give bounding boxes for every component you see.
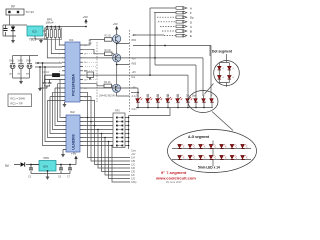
capacitor C2 xyxy=(45,31,49,39)
junction dots buses xyxy=(137,45,166,94)
dot LED 3 xyxy=(218,76,221,80)
svg-text:SW3: SW3 xyxy=(26,60,32,63)
segment output row F xyxy=(154,11,192,15)
svg-text:a: a xyxy=(225,158,226,160)
svg-text:Dot: Dot xyxy=(192,95,196,98)
svg-text:s4: s4 xyxy=(232,77,234,79)
IC1 right pin dashed leaders xyxy=(85,54,96,84)
pointer line dot xyxy=(205,84,214,95)
svg-text:ULN2803: ULN2803 xyxy=(72,134,76,149)
svg-text:Dot: Dot xyxy=(132,76,136,79)
svg-text:09 June 2007: 09 June 2007 xyxy=(166,180,182,184)
svg-text:Dp: Dp xyxy=(190,16,194,20)
junction dots input wires xyxy=(42,62,46,68)
svg-text:a: a xyxy=(225,147,226,149)
junction dots transistors xyxy=(116,43,118,66)
ground under C2 xyxy=(35,36,47,43)
svg-text:a: a xyxy=(194,158,195,160)
svg-text:9V: 9V xyxy=(5,164,10,168)
switch SW1 xyxy=(9,60,15,76)
svg-text:C5: C5 xyxy=(28,176,32,179)
segment output row C xyxy=(160,25,192,29)
cap labels xyxy=(28,176,71,179)
wire dot feed xyxy=(155,65,196,96)
dot LED 1 xyxy=(218,66,221,70)
A-G LED emission ticks xyxy=(182,144,184,147)
svg-text:RB5: RB5 xyxy=(132,63,137,66)
svg-text:s3: s3 xyxy=(222,77,224,79)
resistor pack RP2 xyxy=(113,113,125,148)
resistor pack outputs xyxy=(125,118,129,146)
svg-text:R4 1K: R4 1K xyxy=(104,81,111,84)
switch SW3 xyxy=(26,60,32,76)
IC1 left pins xyxy=(62,45,65,100)
transistor Q1 xyxy=(113,35,121,43)
segment output row E xyxy=(164,34,192,38)
svg-text:F: F xyxy=(190,11,192,15)
svg-text:IC2: IC2 xyxy=(70,110,75,114)
svg-text:16: 16 xyxy=(84,62,87,64)
svg-text:a: a xyxy=(215,158,216,160)
svg-text:D3: D3 xyxy=(156,95,160,98)
svg-text:IC1: IC1 xyxy=(69,38,74,42)
capacitor C6 xyxy=(59,165,63,174)
ground right of switches xyxy=(38,67,42,91)
ground under IC4 xyxy=(46,171,50,180)
svg-text:a: a xyxy=(204,147,205,149)
dot LED 2 xyxy=(228,66,231,70)
switch bottom rail xyxy=(13,69,30,79)
capacitor C7 xyxy=(68,165,72,174)
svg-text:7809: 7809 xyxy=(43,156,49,160)
ground under crystal xyxy=(40,86,47,88)
resistor R4 xyxy=(104,81,112,88)
transistor Q2 xyxy=(113,54,121,62)
svg-text:A-G segment: A-G segment xyxy=(188,135,210,139)
svg-text:s2: s2 xyxy=(232,68,234,70)
svg-text:B: B xyxy=(190,30,192,34)
svg-text:C7: C7 xyxy=(67,176,71,179)
transistor interconnect wires xyxy=(116,43,118,84)
A-G row1 LEDs xyxy=(178,145,245,149)
staircase junction dots xyxy=(87,117,113,147)
svg-text:IC3: IC3 xyxy=(32,30,37,34)
svg-text:s1: s1 xyxy=(222,68,224,70)
ground under IC1 xyxy=(63,102,67,107)
svg-text:D4: D4 xyxy=(166,95,170,98)
svg-text:+5V: +5V xyxy=(132,34,137,37)
svg-text:up: up xyxy=(9,73,12,76)
pointer line A-G xyxy=(212,112,233,131)
wire left rail xyxy=(3,25,27,36)
svg-text:Com: Com xyxy=(132,108,137,111)
resistor R2 xyxy=(105,35,113,42)
svg-text:SW1: SW1 xyxy=(9,60,15,63)
dot segment ellipse xyxy=(214,61,240,86)
svg-text:+9V: +9V xyxy=(71,152,76,156)
svg-text:a: a xyxy=(236,158,237,160)
wires RP1 to IC1 pins xyxy=(47,38,62,58)
A-G row2 LEDs xyxy=(178,156,245,160)
small ellipse dot group xyxy=(188,91,218,113)
switch rail xyxy=(13,56,38,63)
svg-text:C: C xyxy=(190,25,192,29)
svg-text:SW2: SW2 xyxy=(18,60,24,63)
LED D9 xyxy=(210,95,214,103)
svg-text:D: D xyxy=(190,20,192,24)
svg-text:2N4403 BD140: 2N4403 BD140 xyxy=(99,95,116,98)
svg-text:dn: dn xyxy=(18,73,21,76)
svg-text:a: a xyxy=(183,158,184,160)
IC1 microcontroller body xyxy=(65,42,80,102)
svg-text:9V: 9V xyxy=(11,5,16,9)
junction dots caps xyxy=(30,164,71,172)
svg-text:a: a xyxy=(246,158,247,160)
IC1 pin numbers xyxy=(59,45,87,99)
bus wire seg-A xyxy=(83,88,138,96)
capacitor C5 xyxy=(29,165,39,174)
svg-text:E: E xyxy=(190,34,192,38)
svg-text:D2: D2 xyxy=(146,95,150,98)
svg-text:a: a xyxy=(183,147,184,149)
svg-text:A: A xyxy=(190,7,192,11)
svg-text:RB4: RB4 xyxy=(132,39,137,42)
+5V at Q1 xyxy=(113,22,119,35)
wire 7805 output xyxy=(43,27,86,32)
svg-text:a: a xyxy=(215,147,216,149)
svg-text:17: 17 xyxy=(84,54,87,56)
svg-text:4: 4 xyxy=(59,71,61,73)
note box xyxy=(8,94,32,107)
segment output row A xyxy=(150,7,192,11)
dashed board boundary left xyxy=(96,42,98,102)
A-G row1 connecting wire xyxy=(172,147,251,149)
svg-text:9" 7-segment: 9" 7-segment xyxy=(161,170,187,175)
svg-text:PIC16F628A: PIC16F628A xyxy=(72,74,76,96)
wires IC1 to transistor bases xyxy=(83,40,113,46)
wires IC1 left to IC2 bundle xyxy=(48,79,63,100)
switch SW2 xyxy=(18,60,24,76)
+9V power symbol xyxy=(71,152,78,165)
dot LED 4 xyxy=(228,76,231,80)
svg-text:C3 C4: C3 C4 xyxy=(42,71,49,74)
dashed board boundary xyxy=(129,30,131,112)
junction dots left xyxy=(37,62,41,68)
svg-text:a: a xyxy=(204,158,205,160)
staircase branch verticals xyxy=(83,92,130,157)
wire jack down xyxy=(9,15,11,25)
svg-text:a: a xyxy=(236,147,237,149)
svg-text:C/Dp: C/Dp xyxy=(131,181,137,184)
svg-text:a: a xyxy=(246,147,247,149)
svg-text:a: a xyxy=(194,147,195,149)
svg-text:RC2 = TIP: RC2 = TIP xyxy=(11,102,23,106)
bus wire seg-C xyxy=(83,58,203,96)
svg-text:RP2: RP2 xyxy=(115,110,120,113)
dot segment top stub xyxy=(219,54,229,66)
LED D8 xyxy=(202,95,206,103)
LED D7 dot xyxy=(192,95,198,103)
svg-text:R3 1K: R3 1K xyxy=(105,49,112,52)
svg-text:+9V: +9V xyxy=(132,71,137,74)
ground under switches xyxy=(19,78,23,84)
dot segment internal wires xyxy=(219,70,229,87)
net labels right of boundary xyxy=(132,34,137,111)
junction dots on 5V rail xyxy=(46,26,87,28)
diode D1 xyxy=(11,25,15,36)
LED row D1-D6 xyxy=(136,95,142,103)
regulator IC4 xyxy=(39,161,56,172)
capacitor C1 xyxy=(4,25,8,36)
svg-text:Dot segment: Dot segment xyxy=(212,50,233,54)
wire label to led1 xyxy=(131,92,138,94)
svg-text:+5V: +5V xyxy=(83,15,88,19)
net labels bottom column xyxy=(131,150,137,185)
regulator IC3 7805 xyxy=(27,26,43,36)
dot segment riser xyxy=(209,46,211,57)
resistor pack RP1 xyxy=(45,27,62,40)
LED feed stubs xyxy=(138,96,211,99)
wires switches to IC1 xyxy=(35,63,62,67)
bottom caps rail xyxy=(31,165,76,174)
A-G row2 connecting wire xyxy=(172,141,251,167)
svg-text:C6: C6 xyxy=(58,176,62,179)
led stubs xyxy=(148,94,178,99)
resistor R3 xyxy=(105,49,113,56)
transistor Q3 xyxy=(112,84,120,92)
svg-text:5mm LED x 14: 5mm LED x 14 xyxy=(198,166,220,170)
svg-text:www.coolcircuit.com: www.coolcircuit.com xyxy=(155,176,196,181)
svg-text:10Kx4: 10Kx4 xyxy=(46,21,54,25)
ground under input xyxy=(9,36,16,43)
segment output row Dp xyxy=(157,16,194,20)
svg-text:R2 1K: R2 1K xyxy=(105,35,112,38)
ground under IC2 xyxy=(61,150,65,158)
crystal X1 xyxy=(43,74,63,87)
wire y35 from labels xyxy=(133,34,164,36)
common return wire xyxy=(129,108,170,150)
bus wire seg-B xyxy=(83,75,188,96)
svg-text:14: 14 xyxy=(84,79,87,81)
svg-text:set: set xyxy=(26,73,30,76)
IC1 right pins xyxy=(80,45,83,100)
segment output row B xyxy=(162,30,192,34)
IC2 driver body xyxy=(66,115,80,152)
capacitor C8 on IC1 right xyxy=(84,71,94,80)
IC2 right pins xyxy=(80,118,83,146)
vertical feeders from rows xyxy=(150,8,155,75)
svg-text:RC1 = 2N49: RC1 = 2N49 xyxy=(11,97,26,101)
dot LED tiny labels xyxy=(222,68,234,79)
IC2 left pins xyxy=(63,118,66,150)
IC2 output rows to resistor pack xyxy=(83,118,113,146)
LED cathode stubs and common xyxy=(138,102,212,107)
svg-text:TO 9V: TO 9V xyxy=(26,10,35,14)
segment output row D xyxy=(158,20,192,24)
+5V power symbol xyxy=(83,15,88,24)
svg-text:+5V: +5V xyxy=(113,22,118,26)
A-G segment ellipse xyxy=(168,130,257,173)
wire y45 to dot loop xyxy=(133,46,211,97)
DC jack J1 xyxy=(6,9,24,15)
diode D2 xyxy=(14,162,39,166)
svg-text:D5: D5 xyxy=(176,95,180,98)
svg-text:IC4: IC4 xyxy=(43,165,48,169)
